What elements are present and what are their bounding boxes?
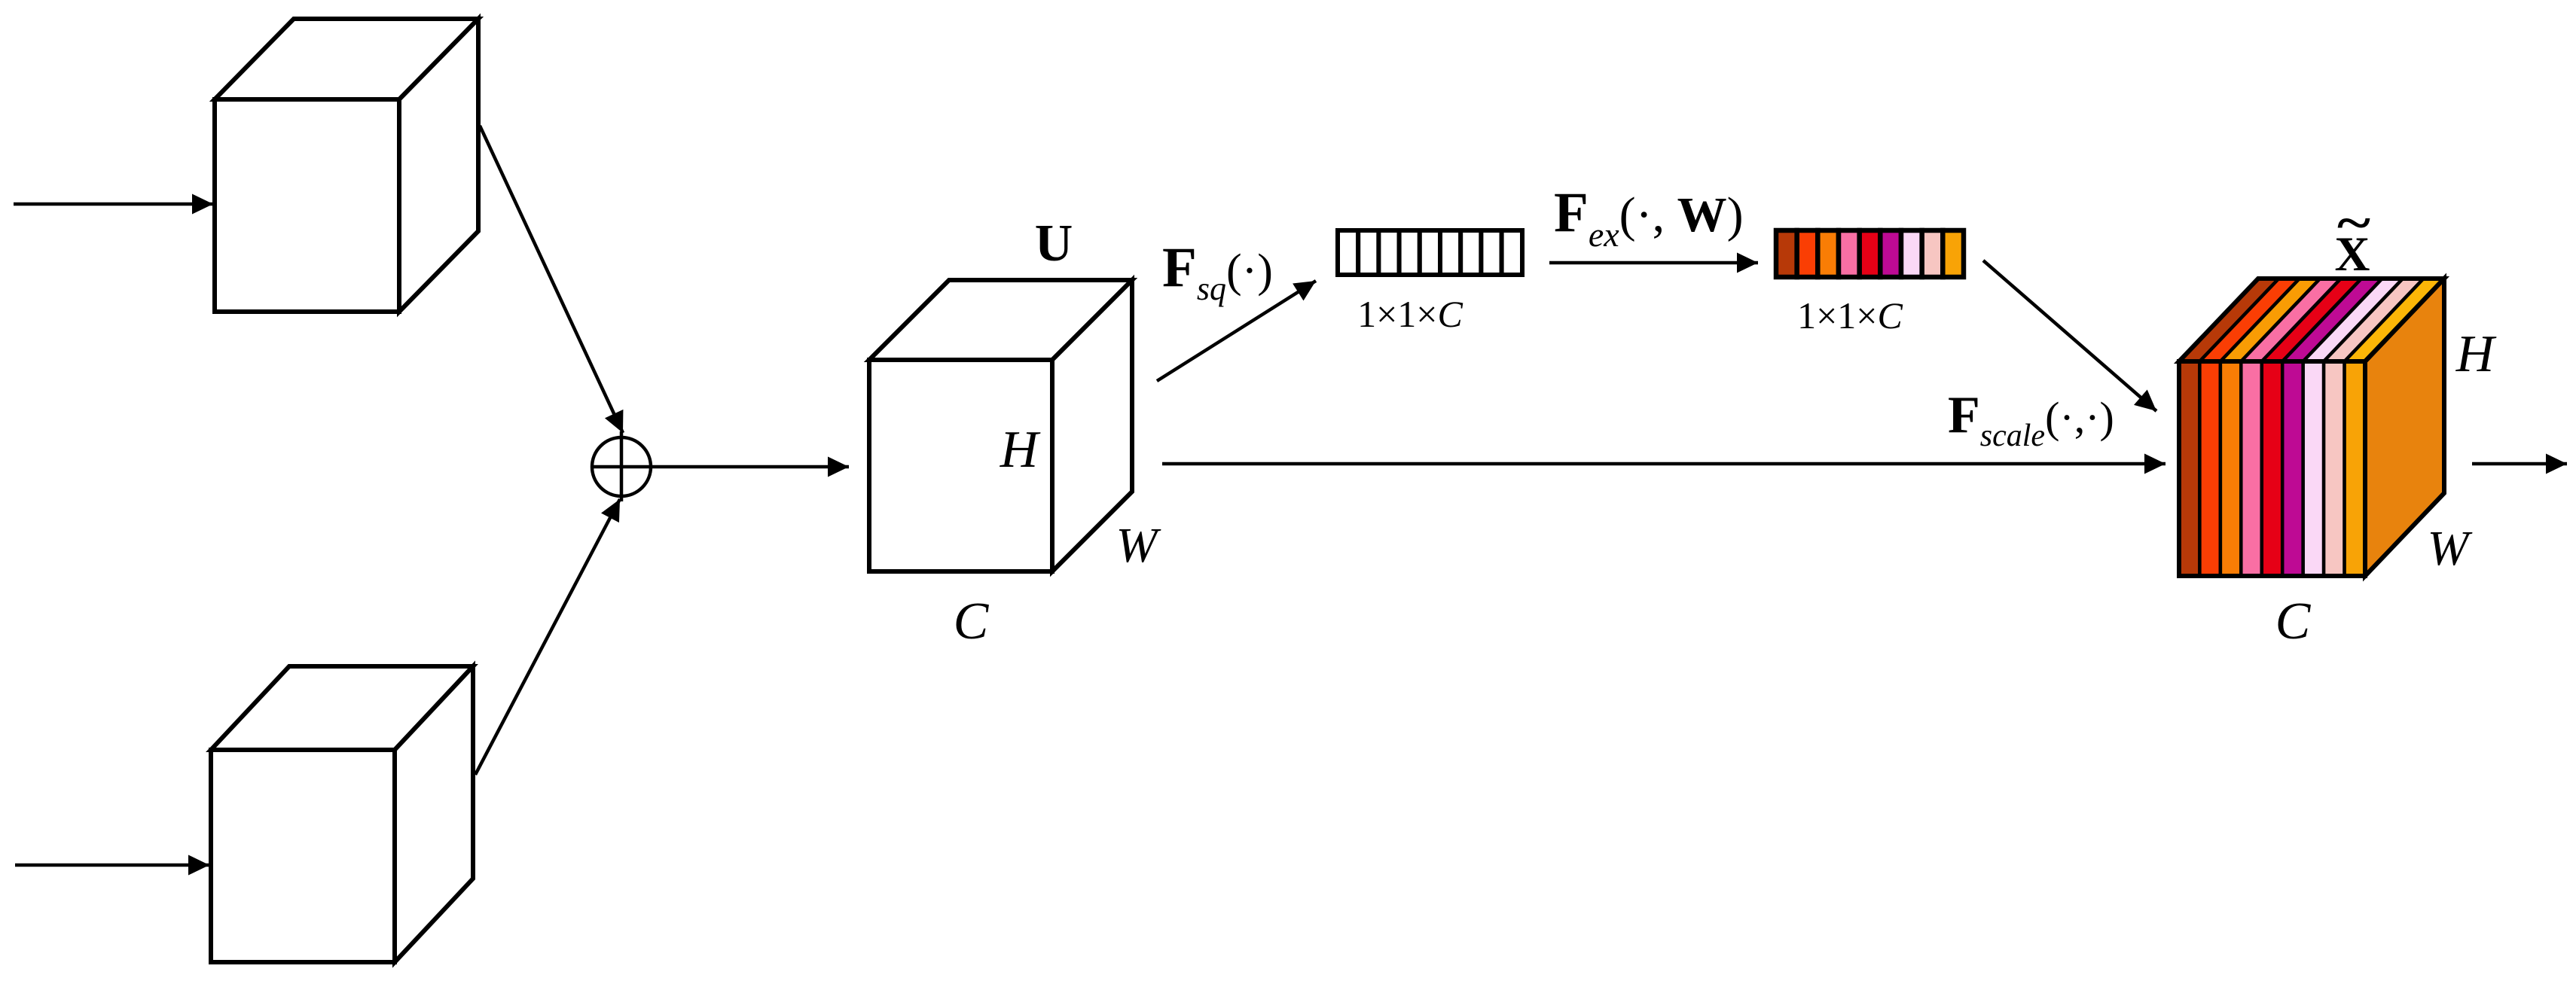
label X tilde <box>2335 196 2370 282</box>
scaled output cube X~ : front face stripes <box>2179 361 2365 576</box>
wire: cube1 to adder <box>480 126 623 433</box>
scaled output cube X~ : top face stripes <box>2179 279 2444 361</box>
svg-text:W: W <box>1116 518 1161 573</box>
svg-text:1×1×C: 1×1×C <box>1797 294 1903 337</box>
label C (cube U) <box>954 593 990 650</box>
arrow: adder to cube U <box>651 465 849 469</box>
arrow F_scale <box>1162 462 2165 466</box>
arrow F_ex <box>1549 261 1758 265</box>
squeeze vector: 1x1xC white row <box>1338 230 1522 275</box>
wire: excitation vector to scaled cube <box>1983 260 2156 411</box>
wire: cube2 to adder <box>475 499 620 775</box>
label W (cube U) <box>1116 518 1161 573</box>
cube: input feature map 1 (top-left) <box>215 19 478 312</box>
label W (scaled cube) <box>2428 521 2473 576</box>
svg-text:Fscale(·,·): Fscale(·,·) <box>1948 386 2114 453</box>
cube U <box>869 280 1132 571</box>
output arrow <box>2472 462 2567 466</box>
svg-text:Fsq(·): Fsq(·) <box>1162 236 1273 307</box>
svg-text:Fex(·, W): Fex(·, W) <box>1554 181 1744 254</box>
svg-text:~: ~ <box>2337 196 2370 251</box>
svg-text:U: U <box>1035 215 1073 273</box>
label U <box>1035 215 1073 273</box>
svg-text:H: H <box>2455 325 2497 383</box>
adder (circled plus) <box>592 431 651 501</box>
svg-text:W: W <box>2428 521 2473 576</box>
label C (scaled cube) <box>2275 593 2312 650</box>
svg-text:H: H <box>1000 421 1041 479</box>
svg-text:C: C <box>2275 593 2312 650</box>
label F_sq(.) <box>1162 236 1273 307</box>
scaled output cube X~ : right face <box>2365 279 2444 576</box>
label F_scale(.,.) <box>1948 386 2114 453</box>
input arrow (top branch) <box>14 203 213 206</box>
cube: input feature map 2 (bottom-left) <box>211 666 473 962</box>
svg-text:1×1×C: 1×1×C <box>1357 293 1463 335</box>
label H (cube U) <box>1000 421 1041 479</box>
excitation vector: 1x1xC colored row <box>1776 230 1964 277</box>
arrow F_sq <box>1157 281 1316 381</box>
svg-text:C: C <box>954 593 990 650</box>
label F_ex(.,W) <box>1554 181 1744 254</box>
input arrow (bottom branch) <box>15 864 209 867</box>
label H (scaled cube) <box>2455 325 2497 383</box>
scaled output cube X~ : outlines <box>2179 279 2444 576</box>
label 1x1xC (excitation) <box>1797 294 1903 337</box>
label 1x1xC (squeeze) <box>1357 293 1463 335</box>
